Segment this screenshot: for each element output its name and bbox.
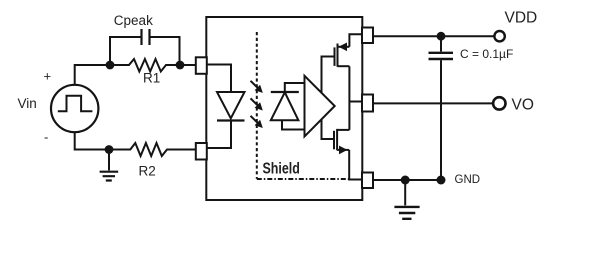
pulse waveform symbol bbox=[58, 96, 93, 112]
light arrow 1 head bbox=[255, 85, 263, 93]
photodiode D2 top wire bbox=[285, 83, 305, 92]
pin cathode (bottom-left) bbox=[196, 143, 207, 160]
wire Q2 source to GND pin bbox=[349, 150, 362, 180]
transistor Q2 NMOS top lead bbox=[337, 129, 349, 131]
transistor Q1 source arrowhead bbox=[339, 43, 348, 52]
LED D1 cathode bar bbox=[217, 119, 245, 121]
resistor R1 bbox=[110, 59, 196, 72]
output rail Q1/Q2 bbox=[349, 34, 362, 130]
transistor Q2 source lead with arrow bbox=[337, 149, 349, 151]
svg-text:VDD: VDD bbox=[505, 10, 538, 27]
svg-text:+: + bbox=[44, 69, 52, 84]
svg-text:C = 0.1µF: C = 0.1µF bbox=[460, 47, 513, 61]
wire output rail to VO pin bbox=[349, 101, 362, 103]
shield horizontal dash-dot line bbox=[257, 178, 349, 180]
capacitor Cpeak left loop wire bbox=[110, 37, 142, 65]
wire GND pin to GND node bbox=[374, 179, 442, 181]
wire VDD pin to VDD terminal bbox=[373, 35, 494, 37]
capacitor C wire bottom to GND bbox=[440, 60, 442, 179]
ground input side bbox=[108, 150, 110, 171]
shield vertical dashed line bbox=[256, 32, 258, 179]
pin VDD (top-right) bbox=[362, 28, 373, 44]
resistor R2 bbox=[109, 143, 196, 156]
svg-text:Shield: Shield bbox=[263, 160, 300, 178]
wire source bottom to node B bbox=[75, 132, 131, 150]
light arrow 1 bbox=[251, 81, 259, 88]
svg-text:R1: R1 bbox=[143, 71, 160, 86]
transistor Q2 NMOS channel bar bbox=[336, 129, 338, 150]
capacitor C wire top bbox=[440, 36, 442, 51]
svg-text:VO: VO bbox=[512, 97, 534, 114]
wire amp bottom edge to Q2 gate bbox=[322, 119, 335, 139]
optocoupler package U1 bbox=[206, 17, 362, 200]
capacitor Cpeak plates bbox=[142, 29, 150, 45]
transistor Q1 PMOS channel bar bbox=[337, 44, 339, 67]
source V1 Vin pulse source bbox=[51, 85, 98, 132]
svg-text:GND: GND bbox=[455, 174, 481, 186]
svg-text:-: - bbox=[44, 130, 48, 145]
light arrow 2 bbox=[251, 98, 259, 105]
transistor Q2 source arrowhead bbox=[339, 146, 348, 155]
photodiode D2 cathode bar bbox=[271, 91, 299, 93]
light arrow 3 head bbox=[255, 120, 263, 128]
capacitor C plates bbox=[429, 53, 454, 59]
terminal VDD circle bbox=[494, 31, 504, 41]
node A junction dot bbox=[106, 61, 115, 70]
amplifier A1 triangle bbox=[305, 76, 335, 137]
ground output side bbox=[404, 180, 406, 205]
transistor Q1 drain lead bbox=[338, 65, 350, 67]
transistor Q1 PMOS gate bar bbox=[334, 47, 336, 66]
wire LED to cathode pin bbox=[207, 121, 231, 149]
transistor Q1 source lead with arrow bbox=[338, 46, 350, 48]
photodiode D2 triangle bbox=[271, 92, 299, 120]
svg-text:Vin: Vin bbox=[18, 96, 37, 111]
photodiode D2 bottom wire bbox=[282, 120, 305, 129]
node C junction dot bbox=[176, 61, 185, 70]
wire amp top edge to Q1 gate bbox=[322, 57, 335, 93]
node GND1 junction dot bbox=[401, 176, 410, 185]
light arrow 2 head bbox=[255, 102, 263, 110]
wire VO pin to VO terminal bbox=[374, 102, 493, 104]
terminal VO circle bbox=[493, 97, 505, 109]
node B junction dot bbox=[105, 145, 114, 154]
light arrow 3 bbox=[251, 116, 259, 123]
node VDD junction dot bbox=[437, 32, 446, 41]
pin anode (top-left) bbox=[196, 57, 207, 74]
wire anode pin to LED bbox=[207, 65, 231, 93]
capacitor Cpeak right loop wire bbox=[150, 37, 180, 65]
pin GND (bottom-right) bbox=[362, 173, 373, 189]
transistor Q2 NMOS gate bar bbox=[333, 131, 335, 150]
pin VO (mid-right) bbox=[362, 95, 373, 112]
svg-text:Cpeak: Cpeak bbox=[114, 13, 153, 28]
svg-text:R2: R2 bbox=[139, 163, 156, 178]
node GND2 junction dot bbox=[437, 176, 446, 185]
wire source top to node A bbox=[75, 65, 110, 85]
LED D1 triangle bbox=[217, 92, 245, 118]
